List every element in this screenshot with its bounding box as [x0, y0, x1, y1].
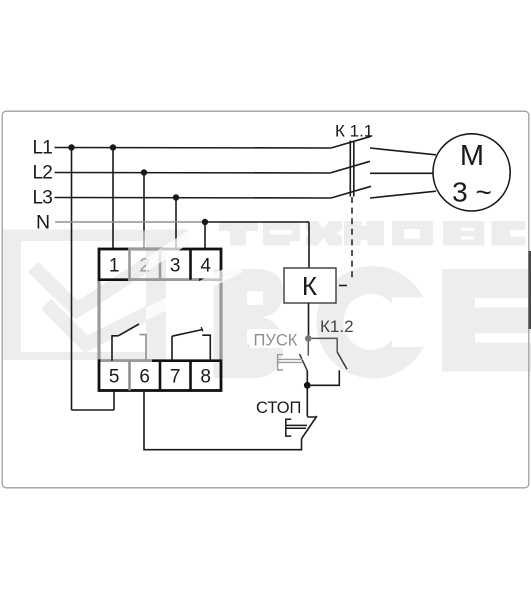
svg-text:L1: L1	[33, 138, 53, 159]
relay contact 7-8 blade tip tick	[201, 327, 203, 331]
contact K1.2 blade	[337, 352, 347, 369]
svg-text:8: 8	[200, 367, 211, 388]
svg-text:3 ~: 3 ~	[452, 177, 492, 208]
svg-text:1: 1	[109, 256, 120, 277]
watermark row2 giant letter E	[442, 269, 531, 372]
relay top row grey bottom edge segment under terminals 2-3	[128, 278, 199, 281]
wire L3 drop to terminal 3	[175, 198, 177, 250]
relay top terminal row bottom edge	[99, 278, 221, 281]
watermark row2 giant letter B	[214, 269, 283, 378]
push button PUSK bottom stub	[306, 371, 308, 383]
dashed link horizontal dash	[339, 285, 347, 287]
wire N horizontal grey left part	[55, 221, 203, 223]
contact K1.1 phase2 blade	[330, 161, 370, 173]
svg-text:К: К	[302, 271, 317, 301]
wire L2 drop grey lower segment	[143, 230, 145, 249]
watermark row1 letter x	[306, 221, 342, 246]
junction dot L1-a	[68, 144, 74, 150]
watermark white stripe B over diagram	[86, 267, 240, 344]
watermark logo inner white square	[21, 241, 146, 352]
push button PUSK top stub	[307, 342, 309, 356]
svg-text:L2: L2	[33, 163, 53, 184]
wire L1 left drop	[71, 148, 73, 411]
push button PUSK actuator	[278, 355, 303, 370]
relay body left edge lightened segment	[98, 281, 101, 359]
watermark white stripe A over diagram	[77, 231, 240, 344]
relay top terminal divider 3|4	[189, 249, 192, 280]
svg-text:L3: L3	[33, 188, 53, 209]
watermark row1 letter v	[443, 221, 484, 246]
relay top terminal divider 1|2	[128, 249, 131, 280]
relay top terminal divider 2|3	[159, 249, 162, 280]
relay contact 5-6 stub from terminal 5	[112, 336, 118, 361]
push button PUSK blade	[300, 354, 308, 371]
relay contact 5-6 grey stub from terminal 6	[140, 335, 147, 361]
svg-text:M: M	[460, 140, 484, 172]
svg-text:К 1.1: К 1.1	[335, 122, 373, 141]
svg-text:К1.2: К1.2	[320, 317, 354, 336]
junction dot L1-b	[110, 144, 116, 150]
watermark band row1	[2, 230, 189, 247]
wire STOP button down and left to terminal 6	[144, 391, 302, 450]
label PUSK background	[250, 329, 298, 348]
wire L3 horizontal	[55, 197, 332, 200]
wire phase1 to motor	[370, 148, 436, 155]
contact K1.2 bottom stub	[311, 370, 340, 385]
contact K1.2 top wire	[312, 338, 338, 352]
junction dot STOP (black)	[304, 382, 311, 389]
relay body right edge lightened segment	[220, 281, 223, 359]
watermark row1 letter o	[392, 221, 433, 246]
svg-text:7: 7	[170, 367, 181, 388]
watermark logo M-mark grey (inside square)	[33, 220, 240, 344]
push button STOP seat tick	[307, 416, 316, 418]
svg-text:СТОП: СТОП	[256, 399, 301, 417]
relay contact 7-8 seat and stub to terminal 8	[202, 335, 210, 361]
wire junction to STOP button	[306, 385, 308, 416]
relay device outer box	[99, 249, 221, 391]
watermark row1 letter s	[491, 221, 525, 246]
watermark row1 letter n	[344, 221, 384, 246]
watermark row1 letter t	[219, 221, 525, 246]
wire L1 drop to terminal 1	[112, 148, 114, 250]
junction dot PUSK (grey)	[305, 335, 312, 342]
coil K box	[284, 268, 336, 303]
contact K1.1 phase1 blade	[331, 136, 371, 148]
dashed link contactor to coil	[351, 197, 353, 281]
push button STOP blade	[302, 416, 317, 439]
wire L2 drop to terminal 2	[143, 173, 145, 233]
watermark row2 giant letter C	[316, 266, 429, 378]
junction dot L2	[141, 169, 147, 175]
wire riser to terminal 5	[113, 391, 115, 411]
relay bottom terminal divider 6|7	[159, 361, 162, 391]
relay bottom terminal divider 7|8	[189, 361, 192, 391]
relay contact 7-8 stub from terminal 7	[171, 336, 173, 361]
right-edge dark strip	[528, 251, 531, 329]
wire N drop to coil K	[308, 222, 310, 268]
motor M 3~ circle	[433, 134, 510, 211]
watermark row1 letter e	[263, 221, 300, 246]
contact K1.1 linkage bar left	[349, 141, 351, 197]
wire coil K to junction	[308, 303, 310, 335]
wire L2 horizontal	[55, 172, 331, 175]
relay bottom terminal divider 5|6	[128, 361, 131, 391]
wire bottom-left horizontal to terminal 5	[72, 409, 115, 411]
svg-text:N: N	[36, 212, 50, 234]
wire N drop to terminal 4	[204, 222, 206, 249]
svg-text:3: 3	[170, 256, 181, 277]
relay bottom terminal row top edge	[99, 359, 221, 362]
junction dot N	[202, 219, 208, 225]
contact K1.1 linkage bar right	[353, 141, 355, 197]
wire L1 horizontal	[55, 147, 332, 150]
wire N horizontal (right part)	[203, 221, 309, 223]
svg-text:6: 6	[139, 367, 150, 388]
page border frame	[2, 111, 529, 488]
relay contact 7-8 blade	[172, 330, 202, 337]
contact K1.1 phase3 blade	[331, 186, 371, 198]
svg-text:4: 4	[200, 256, 211, 277]
watermark logo frame	[2, 230, 166, 360]
relay top row grey top edge segment above terminal 2	[128, 248, 161, 251]
relay contact 5-6 blade	[118, 324, 139, 336]
wire phase3 to motor	[370, 191, 436, 198]
wire phase2 to motor	[370, 172, 433, 174]
push button STOP actuator	[286, 419, 307, 436]
svg-text:ПУСК: ПУСК	[254, 332, 298, 350]
svg-text:5: 5	[109, 367, 120, 388]
junction dot L3	[173, 194, 179, 200]
relay bottom terminal row top edge lightened segment	[101, 359, 153, 362]
